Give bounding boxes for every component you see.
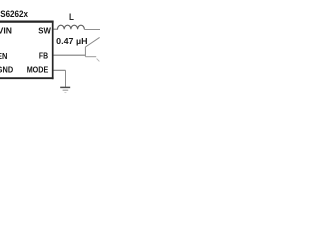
- wire VOUT node from inductor to right edge: [84, 29, 100, 31]
- wire FB pin horizontal: [54, 54, 86, 56]
- wire MODE pin horizontal: [54, 69, 66, 71]
- wire FB to VOUT diagonal: [85, 37, 99, 47]
- IC U1 box right edge: [52, 21, 54, 80]
- svg-text:VIN: VIN: [0, 26, 12, 36]
- svg-text:S6262x: S6262x: [0, 9, 28, 19]
- svg-text:L: L: [69, 12, 74, 22]
- ground: [60, 87, 70, 92]
- svg-text:MODE: MODE: [27, 65, 49, 75]
- IC U1 box top edge: [0, 20, 54, 22]
- wire MODE to ground vertical: [65, 70, 67, 87]
- inductor L1: [58, 25, 85, 29]
- IC U1 box bottom edge: [0, 77, 54, 79]
- wire SW pin to inductor: [54, 28, 59, 30]
- svg-text:GND: GND: [0, 65, 13, 75]
- svg-text:0.47 µH: 0.47 µH: [56, 37, 87, 46]
- wire FB junction vertical: [84, 47, 86, 57]
- svg-text:EN: EN: [0, 51, 7, 61]
- wire lower horizontal to output capacitor (cropped): [85, 56, 96, 58]
- svg-text:SW: SW: [38, 26, 51, 36]
- wire cropped capacitor stub diagonal: [97, 59, 100, 62]
- svg-text:FB: FB: [39, 50, 48, 60]
